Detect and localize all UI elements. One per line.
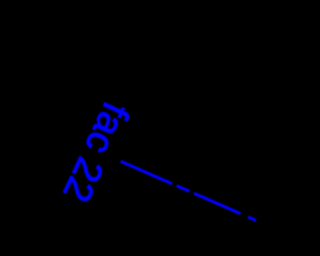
blue dash-dot boundary line bbox=[121, 161, 260, 222]
